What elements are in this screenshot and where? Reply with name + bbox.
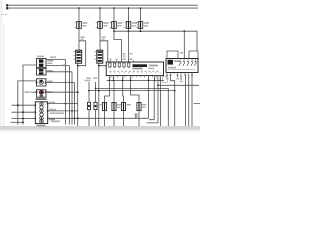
wire to resistor D2 [95,82,97,102]
wire F5 drop [140,8,142,22]
wire top bus 2 [9,7,198,9]
node junction sub bus d [130,80,132,82]
wire ground drop W4 [74,83,76,125]
wire sub bus to fuse G4 [131,80,139,102]
fuse F5 [136,22,149,29]
wire block pin short stub a [166,74,168,77]
node junction drop at sub bus [148,80,150,82]
node junction gnd1 [65,103,67,105]
node junction sub bus c [122,80,124,82]
node junction sub bus a [109,80,111,82]
wire ECM sub bus [107,79,165,81]
label tag on W1 [62,64,65,66]
node junction sub bus e [154,80,156,82]
wire ground drop W2 [69,66,71,125]
label connector tag D2 [93,77,97,79]
fuse F2 [96,22,109,29]
wire elbow top feeder [46,59,66,61]
wire below G2 [113,111,115,126]
fuse F3 [110,22,123,29]
label GND tag 2 [49,109,56,111]
wire F2 to coil 2 [99,28,101,50]
ECM pin drops to sub bus [110,76,161,81]
label below connector J1 [37,125,46,127]
wire block pin elbow feed to long drop [171,74,175,126]
label faint header text top left [1,14,4,15]
wire coil T2 ground run [98,63,100,126]
noise filter box R3 [36,79,53,86]
wire F3 drop [113,8,115,22]
node junction left feeder 2 [22,111,24,113]
wire top bus 1 [9,4,198,6]
relay cover box K2 [189,51,198,59]
wire F4 drop [128,8,130,22]
node junction fuse F3 on bus [113,7,115,9]
wire R2 output right [46,71,72,73]
wire J1 left pin feeder 2 [12,111,36,113]
wire R4 left stub [31,91,37,93]
label tag on right feed [180,52,183,54]
wire ground drop W3 [71,72,73,125]
wire F5 to mid bus [140,28,142,31]
label shielded text [51,121,60,123]
wire J1 left pin feeder 1 [12,104,36,106]
wire block pin short stub b [177,74,179,77]
wire ECM right drop c [160,80,162,126]
wire mid bus into junction block [183,31,185,58]
label GND tag 1 [49,102,55,104]
ECM block U1 [106,62,163,76]
page bottom scan band [0,127,200,131]
connector block J1 [35,102,49,124]
node junction R4 output at coil ground [77,91,79,93]
node terminal dot B+ line 1 [6,4,9,7]
wire coil T1 ground run [77,63,79,126]
wire R1 output right [46,65,70,67]
wire ECM pin drop into ground bus corner [147,76,149,119]
relay box R1 [37,56,54,68]
wire below D2 [95,110,97,126]
wire to resistor D1 [88,82,90,102]
ECM pin stubs [111,76,156,78]
node junction left feeder 1 [17,104,19,106]
node junction gnd2 [71,110,73,112]
node junction coil T1 bypass [77,65,79,67]
node junction mid bus to relay block [183,30,185,32]
wire J1 ground bus 1 [48,103,78,105]
junction block K3 [166,59,198,73]
wire sub bus to fuse G2 [113,80,115,102]
label connector tag D1 [87,77,91,79]
label tag above feeder [50,56,56,58]
ignition coil T2 bypass wire [99,41,108,66]
wire bottom left ground run [11,121,24,123]
page margin faint rule [3,24,6,127]
node junction mid bus at F5 [140,30,142,32]
wire ECM feed zig from mid bus [114,31,122,62]
wire block pin drop long c [185,74,187,126]
node junction left feeder 3 [22,118,24,120]
wire F2 drop [99,8,101,22]
wire ground drop W1 [65,60,67,125]
wire sub bus to fuse G1 [105,80,110,102]
page left margin edge [0,0,3,132]
wire below G1 [104,111,106,126]
wire F4 to mid bus [128,28,130,31]
node junction fuse F1 on bus [78,7,80,9]
node junction coil T2 bypass [98,65,100,67]
node junction mid bus at F4 [128,30,130,32]
label IGT pin text [123,58,126,60]
wire below D1 [88,110,90,126]
ignition coil T2 [95,50,103,63]
sensor box R4 with red element [25,90,53,97]
wire sub bus to fuse G3 [122,80,125,102]
label pin numbers under block [166,75,168,76]
wire R1 left elbow down [23,65,37,125]
ECM top edge stubs [110,60,133,62]
label connector tag coil 1 [81,36,85,38]
wire long ground bus [48,117,149,119]
wire below G3 [123,111,125,126]
relay cover box K1 [167,51,178,59]
connector hook pair on ground bus [135,115,137,119]
wire block pin drop long d [188,74,190,126]
wire below G4 [138,111,140,126]
wire J1 ground bus 2 [48,110,78,112]
junction block pin stubs [167,73,192,75]
wire ECM right drop b with elbow [147,80,159,123]
fuse G2 [112,102,122,110]
node junction sub bus b [113,80,115,82]
node junction D2 branch [95,88,97,90]
wire R3 output right [46,82,75,84]
node junction fuse F5 on bus [140,7,142,9]
wire mid horizontal bus [114,31,197,51]
label ECM pin numbers [109,77,111,78]
wire horizontal link H2 with corner down [96,88,169,126]
wire F1 to coil [78,28,80,50]
node junction fuse F4 on bus [128,7,130,9]
wire F3 to mid bus [113,28,115,31]
node junction gnd3a [74,117,76,119]
node junction gnd3b [77,117,79,119]
fuse F1 [75,22,88,29]
node junction H3 at coil2 ground [98,90,100,92]
wire ECM feed straight from mid bus [128,31,130,62]
fuse F4 [124,22,137,29]
label right of J1 pin [49,119,55,121]
label connector tag coil 2 [102,36,106,38]
label wire color text row [50,112,64,114]
node terminal dot B+ line 2 [6,7,9,10]
wire horizontal link H1 to edge [158,84,199,86]
wire exit stub right edge [194,102,201,104]
node junction sub bus f [159,80,161,82]
wire R4 output right [46,91,78,93]
label above connector J1 [36,98,47,100]
wire J1 left pin feeder 3 [12,118,36,120]
fuse G1 [99,102,107,110]
wire block pin short stub with label [180,74,182,80]
node junction mid bus at F3 [113,30,115,32]
node junction H1 branch [157,84,159,86]
fuse G3 [121,102,130,110]
node junction H3 right end [174,90,176,92]
wire block pin drop long f [191,73,193,127]
wire F1 drop [78,8,80,22]
node junction fuse F2 on bus [99,7,101,9]
connector code box right of ECM [162,77,167,83]
resistor D1 [87,102,90,109]
node junction bottom left [22,121,24,123]
resistor D2 [94,102,97,109]
node junction D1 branch [88,90,90,92]
fuse G4 [137,102,147,110]
ignition coil T1 [73,50,81,63]
ignition coil T1 bypass wire [78,41,86,66]
wire horizontal link H3 [89,90,175,92]
wire ECM right drop with elbow [149,80,154,119]
wire R3 left elbow down [18,81,37,125]
relay box R2 [37,68,53,75]
